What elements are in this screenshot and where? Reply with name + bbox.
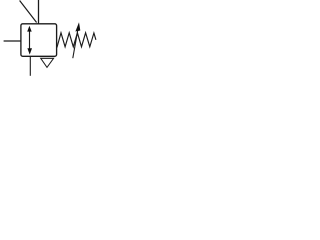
adjustable spring (zigzag) [57,33,96,48]
spring adjustment arrow [73,22,81,58]
port line top (outlet stem) [38,0,40,24]
adjustment diagonal line upper-left [20,1,37,23]
valve body (pressure regulator square) [21,24,57,57]
exhaust vent triangle [41,58,54,67]
flow path double-headed arrow inside valve [27,26,32,55]
port line bottom [29,56,31,76]
port line left [4,40,21,42]
